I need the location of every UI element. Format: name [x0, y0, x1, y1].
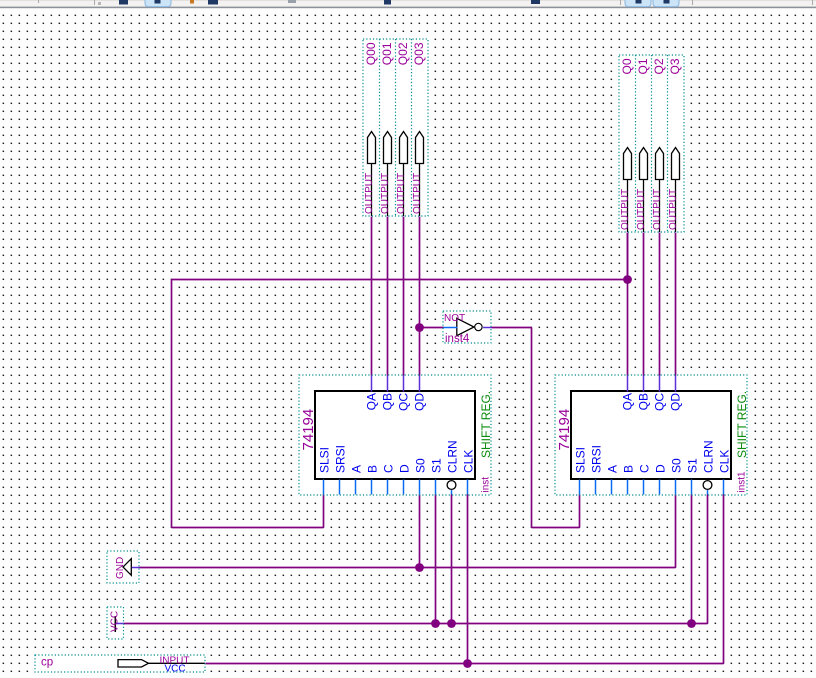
svg-text:QB: QB [637, 393, 651, 410]
svg-text:CLK: CLK [718, 450, 732, 473]
svg-text:S1: S1 [430, 458, 444, 473]
svg-text:OUTPUT: OUTPUT [652, 189, 663, 230]
svg-text:Q0: Q0 [620, 58, 634, 74]
svg-text:OUTPUT: OUTPUT [636, 189, 647, 230]
svg-text:SHIFT REG.: SHIFT REG. [735, 391, 749, 458]
svg-text:NOT: NOT [444, 313, 465, 324]
svg-text:S1: S1 [686, 458, 700, 473]
svg-text:CLRN: CLRN [702, 440, 716, 473]
svg-text:VCC: VCC [110, 611, 121, 632]
svg-text:SLSI: SLSI [318, 447, 332, 473]
svg-text:CLRN: CLRN [446, 440, 460, 473]
svg-text:VCC: VCC [165, 664, 186, 675]
svg-text:QD: QD [413, 393, 427, 411]
svg-text:inst1: inst1 [737, 471, 748, 493]
svg-text:cp: cp [41, 657, 53, 669]
svg-text:Q2: Q2 [652, 58, 666, 74]
svg-text:C: C [638, 464, 652, 473]
svg-text:QC: QC [653, 393, 667, 411]
svg-text:inst4: inst4 [445, 333, 470, 345]
svg-text:Q02: Q02 [396, 42, 410, 65]
svg-text:S0: S0 [670, 458, 684, 473]
svg-text:SHIFT REG.: SHIFT REG. [479, 391, 493, 458]
svg-text:inst: inst [481, 477, 492, 493]
svg-text:A: A [606, 465, 620, 473]
svg-text:QA: QA [621, 393, 635, 410]
svg-text:C: C [382, 464, 396, 473]
svg-text:SRSI: SRSI [590, 445, 604, 473]
svg-text:S0: S0 [414, 458, 428, 473]
svg-text:74194: 74194 [300, 409, 317, 451]
svg-text:OUTPUT: OUTPUT [380, 173, 391, 214]
svg-text:D: D [398, 464, 412, 473]
svg-text:Q1: Q1 [636, 58, 650, 74]
svg-text:SRSI: SRSI [334, 445, 348, 473]
svg-text:QD: QD [669, 393, 683, 411]
svg-text:QC: QC [397, 393, 411, 411]
svg-text:Q00: Q00 [364, 42, 378, 65]
svg-text:SLSI: SLSI [574, 447, 588, 473]
svg-text:QA: QA [365, 393, 379, 410]
svg-text:Q03: Q03 [412, 42, 426, 65]
svg-text:D: D [654, 464, 668, 473]
svg-text:OUTPUT: OUTPUT [364, 173, 375, 214]
svg-text:OUTPUT: OUTPUT [412, 173, 423, 214]
svg-text:OUTPUT: OUTPUT [396, 173, 407, 214]
svg-text:Q3: Q3 [668, 58, 682, 74]
svg-text:B: B [622, 465, 636, 473]
svg-text:OUTPUT: OUTPUT [668, 189, 679, 230]
svg-text:Q01: Q01 [380, 42, 394, 65]
svg-text:A: A [350, 465, 364, 473]
svg-text:OUTPUT: OUTPUT [620, 189, 631, 230]
svg-text:QB: QB [381, 393, 395, 410]
svg-text:B: B [366, 465, 380, 473]
svg-text:CLK: CLK [462, 450, 476, 473]
svg-text:GND: GND [115, 557, 126, 579]
svg-text:74194: 74194 [556, 409, 573, 451]
